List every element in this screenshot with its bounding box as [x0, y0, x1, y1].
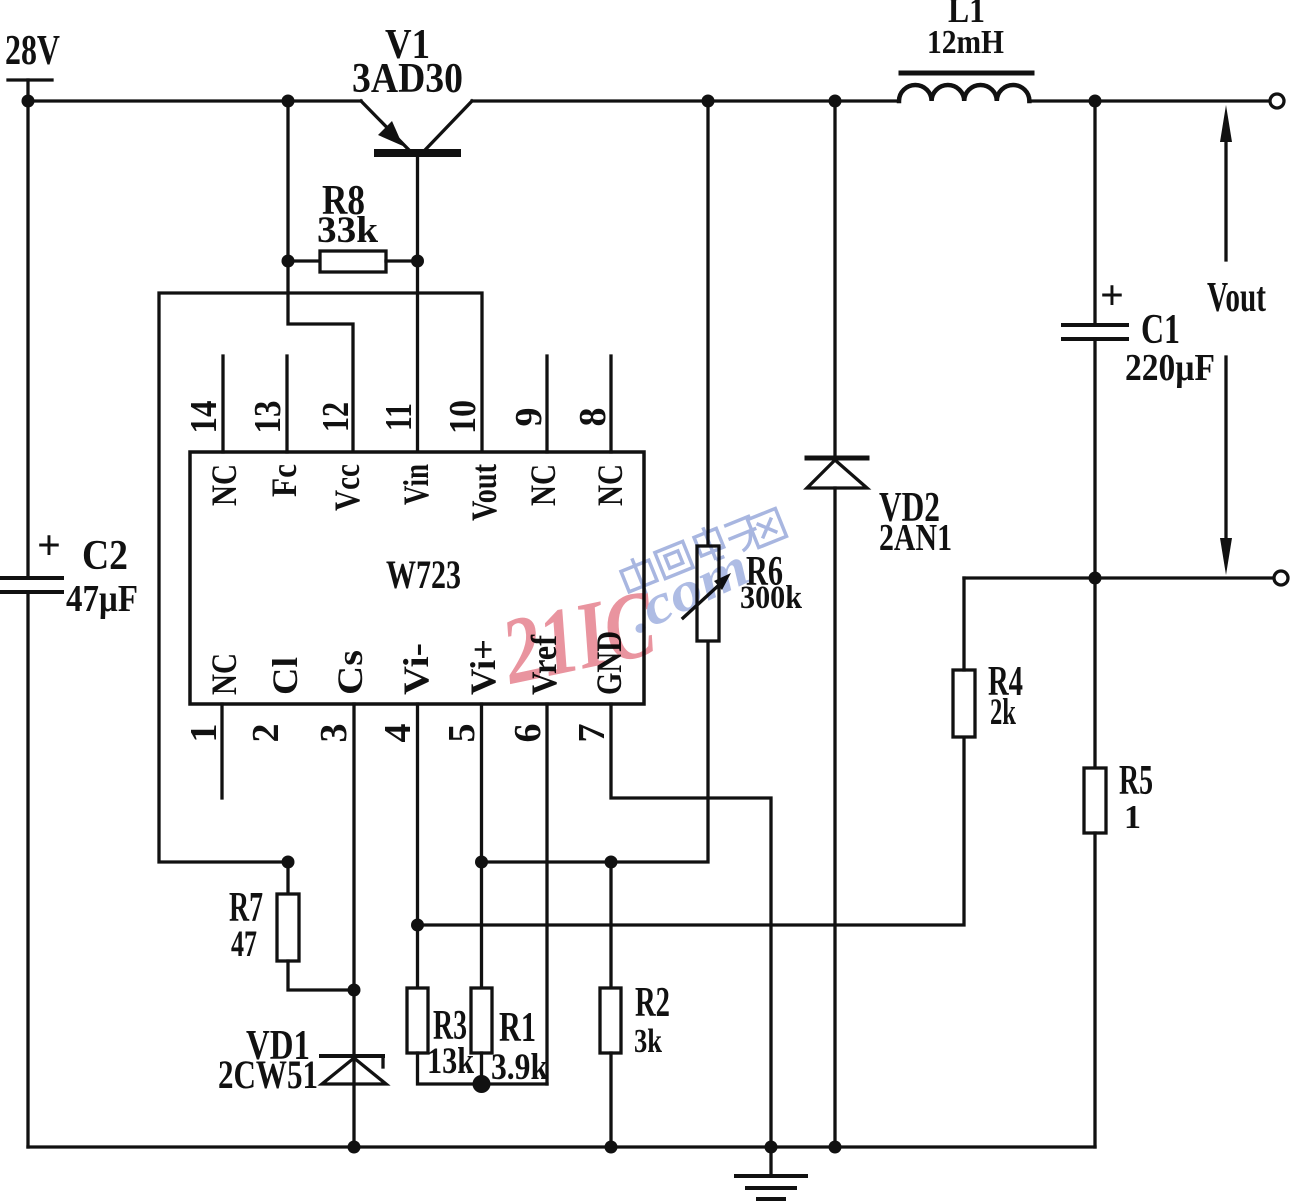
pin 1 stub [220, 704, 223, 798]
svg-text:Cl: Cl [265, 657, 305, 695]
wire: pin 7 (GND) to ground drop [611, 704, 771, 1176]
diode VD2 [807, 101, 867, 1147]
wire: rail branch down to R8 and pin 12 [288, 101, 353, 452]
node: R2 top junction [605, 856, 618, 869]
capacitor C1 [1063, 101, 1127, 578]
wire: Vi+ horizontal to R6 bottom [482, 641, 709, 862]
ground [736, 1176, 806, 1199]
svg-text:33k: 33k [317, 210, 378, 251]
node: Vi- / R4 feedback line [411, 919, 424, 932]
svg-text:4: 4 [377, 724, 419, 743]
wire: pin 3 (Cs) down to bottom rail [352, 704, 355, 1147]
svg-text:Vout: Vout [464, 464, 504, 521]
resistor R4 [953, 670, 975, 737]
svg-text:+: + [37, 523, 61, 569]
node: rail / VD2 branch [829, 95, 842, 108]
wire: pin 4 (Vi-) down to R3 [416, 704, 419, 988]
node: R8 right junction (V1 base) [411, 255, 424, 268]
wire: top rail from V1 collector to output terminal [472, 99, 899, 102]
svg-text:2k: 2k [990, 692, 1016, 733]
node: R1 bottom junction [473, 1075, 491, 1093]
wire: R1 bottom stub [480, 1053, 483, 1084]
node: bottom rail / R2 [605, 1141, 618, 1154]
svg-text:6: 6 [507, 724, 549, 743]
svg-text:7: 7 [571, 724, 613, 743]
svg-text:R5: R5 [1119, 758, 1153, 804]
svg-text:12mH: 12mH [927, 24, 1004, 61]
node: bottom rail / VD1 [348, 1141, 361, 1154]
Vout arrow up [1220, 105, 1232, 260]
svg-text:2AN1: 2AN1 [879, 517, 952, 559]
svg-text:5: 5 [441, 724, 483, 743]
svg-text:Vcc: Vcc [327, 464, 367, 511]
pin 13 stub [285, 356, 288, 452]
resistor R5 [1084, 578, 1106, 1147]
svg-text:2: 2 [245, 724, 287, 743]
svg-text:NC: NC [204, 653, 244, 695]
node: bottom rail / VD2 [829, 1141, 842, 1154]
svg-text:1: 1 [1124, 799, 1141, 836]
wire: R3 bottom to Vref bus [418, 1053, 548, 1084]
node: pin2 / R7 junction [282, 856, 295, 869]
svg-text:W723: W723 [386, 552, 461, 597]
svg-text:47µF: 47µF [66, 578, 138, 620]
svg-text:3.9k: 3.9k [491, 1047, 548, 1088]
output terminal top [1270, 94, 1284, 108]
wire: lower output line [964, 576, 1274, 579]
svg-text:3k: 3k [634, 1023, 662, 1060]
output terminal bottom [1274, 571, 1288, 585]
wire: pin 6 (Vref) down to bus [545, 704, 548, 1084]
svg-text:3: 3 [313, 724, 355, 743]
svg-text:NC: NC [204, 464, 244, 506]
pin 9 stub [545, 356, 548, 452]
svg-text:10: 10 [442, 400, 484, 434]
node: 28V rail corner [22, 95, 35, 108]
svg-text:C2: C2 [82, 533, 128, 579]
svg-text:Cs: Cs [330, 650, 370, 695]
capacitor C2 [0, 101, 62, 1147]
svg-text:12: 12 [315, 402, 357, 432]
resistor R3 [407, 988, 428, 1053]
potentiometer R6 [683, 101, 731, 641]
pin 8 stub [609, 356, 612, 452]
svg-text:R1: R1 [499, 1005, 536, 1051]
svg-text:+: + [1100, 273, 1124, 319]
input terminal 28V [8, 78, 52, 81]
svg-text:NC: NC [523, 464, 563, 506]
svg-text:8: 8 [572, 408, 614, 427]
IC U1 W723 [190, 452, 644, 704]
node: output line / C1,R5 [1089, 572, 1102, 585]
transistor V1 [361, 101, 472, 452]
inductor L1 [899, 73, 1032, 101]
svg-text:Vin: Vin [396, 464, 436, 505]
node: R8 left junction [282, 255, 295, 268]
node: Vi+ / R6 wiper line [475, 856, 488, 869]
svg-text:14: 14 [183, 401, 225, 434]
svg-text:2CW51: 2CW51 [218, 1052, 318, 1097]
svg-text:11: 11 [378, 403, 420, 431]
svg-text:Vi+: Vi+ [463, 639, 503, 695]
svg-text:R2: R2 [635, 980, 670, 1026]
watermark 21IC.com 中国电子网 [492, 508, 787, 704]
svg-text:13: 13 [247, 401, 289, 434]
node: R7 to Cs line [348, 984, 361, 997]
svg-text:28V: 28V [5, 28, 60, 74]
wire: R4 top to output line [962, 578, 965, 670]
node: bottom rail / ground [765, 1141, 778, 1154]
node: rail / R6 branch [702, 95, 715, 108]
svg-text:Vi-: Vi- [396, 643, 436, 695]
svg-text:13k: 13k [427, 1041, 474, 1082]
wire: pin 5 (Vi+) down to R1 [480, 704, 483, 988]
svg-text:9: 9 [508, 408, 550, 427]
svg-text:NC: NC [590, 464, 630, 506]
resistor R1 [471, 988, 492, 1053]
pin 14 stub [221, 356, 224, 452]
node: rail / R8 branch [282, 95, 295, 108]
svg-text:220µF: 220µF [1125, 347, 1215, 389]
Vout arrow down [1220, 357, 1232, 575]
resistor R7 [277, 862, 354, 990]
svg-text:Fc: Fc [264, 464, 304, 497]
zener diode VD1 [321, 1056, 386, 1084]
svg-text:47: 47 [231, 924, 257, 965]
resistor R8 [288, 251, 418, 272]
wire: bottom rail [28, 1145, 1095, 1148]
wire: pin 10 to left loop down to pin 2 [159, 293, 482, 862]
resistor R2 [600, 862, 621, 1147]
svg-text:Vout: Vout [1207, 275, 1266, 321]
wire: Vi- feedback line to R4 [418, 737, 965, 925]
svg-text:3AD30: 3AD30 [352, 56, 463, 102]
wire: top rail from 28V to V1 emitter [28, 99, 361, 102]
node: rail / C1 branch [1089, 95, 1102, 108]
svg-text:1: 1 [183, 724, 225, 743]
